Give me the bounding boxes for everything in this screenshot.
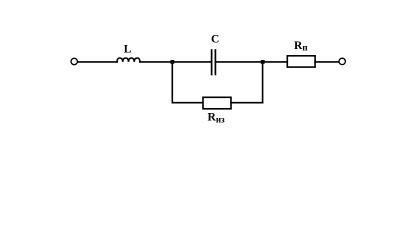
node junction 1 bbox=[171, 60, 175, 64]
svg-text:Rиз: Rиз bbox=[208, 112, 225, 125]
terminal left bbox=[71, 58, 77, 64]
wire bbox=[171, 62, 173, 103]
resistor Riz bbox=[203, 97, 231, 109]
node junction 2 bbox=[261, 60, 265, 64]
resistor Rp bbox=[287, 56, 315, 67]
wire bbox=[315, 61, 339, 63]
wire bbox=[172, 102, 203, 104]
svg-text:C: C bbox=[211, 34, 219, 46]
inductor L bbox=[117, 58, 140, 62]
wire bbox=[231, 102, 263, 104]
wire bbox=[216, 61, 263, 63]
wire bbox=[140, 61, 172, 63]
svg-text:L: L bbox=[124, 44, 132, 56]
wire bbox=[78, 61, 117, 63]
wire bbox=[172, 61, 211, 63]
capacitor C bbox=[212, 50, 216, 75]
svg-text:Rп: Rп bbox=[294, 40, 308, 53]
wire bbox=[263, 61, 288, 63]
wire bbox=[262, 62, 264, 103]
terminal right bbox=[339, 58, 345, 64]
